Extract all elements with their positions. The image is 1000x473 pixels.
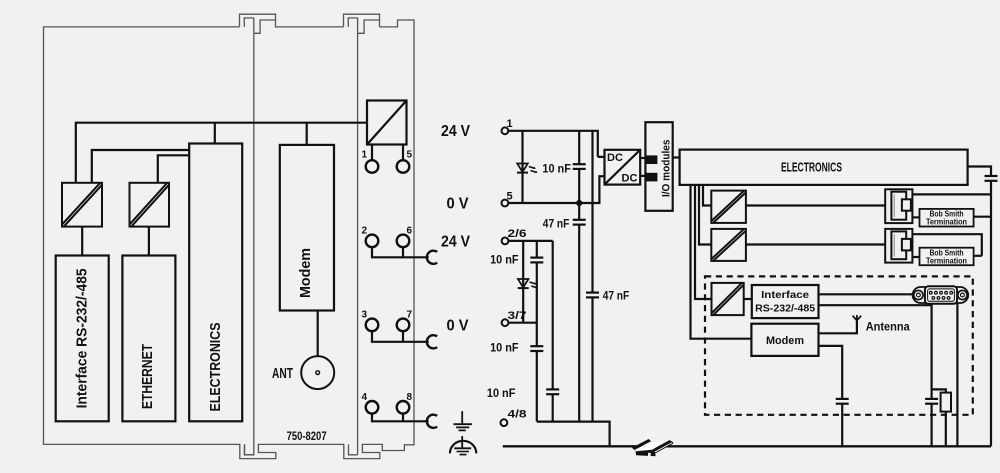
capacitor electronics earth [985, 176, 998, 181]
svg-text:24 V: 24 V [441, 234, 470, 251]
svg-text:10 nF: 10 nF [490, 253, 519, 267]
svg-text:ANT: ANT [272, 365, 293, 382]
node 2/6 circle [502, 238, 509, 245]
svg-text:0 V: 0 V [447, 196, 469, 213]
wire ethernet isolation to ethernet block [148, 227, 150, 256]
wire collector to earth bus [537, 422, 610, 447]
terminal circle 3 [366, 319, 379, 332]
wire node1 to dc upper stub [597, 155, 599, 157]
capacitor modem earth [836, 399, 849, 446]
svg-text:1: 1 [507, 118, 513, 130]
cage clamp row 2/6 [427, 251, 437, 264]
node 4/8 circle [501, 419, 508, 426]
terminal circle 8 [397, 401, 410, 414]
svg-text:47 nF: 47 nF [603, 289, 630, 303]
svg-text:I/O modules: I/O modules [661, 140, 673, 198]
functional earth symbol [454, 411, 472, 430]
rail earth symbol [450, 436, 476, 455]
wire dc to io pin upper [640, 157, 647, 159]
svg-text:24 V: 24 V [441, 123, 470, 140]
svg-text:3: 3 [361, 310, 367, 321]
wire power block to terminal 5 [402, 145, 404, 161]
svg-text:10 nF: 10 nF [542, 162, 571, 176]
foot 2 hook [349, 444, 358, 454]
capacitor 47nF row1 [573, 203, 586, 422]
dashed enclosure [705, 276, 973, 414]
io pin upper [646, 155, 658, 164]
io modules block [645, 122, 672, 211]
svg-text:1: 1 [361, 150, 367, 161]
junction node5 cap [576, 200, 582, 206]
LED 1 [517, 131, 538, 203]
terminal circle 5 [397, 160, 410, 173]
terminal circle 4 [366, 401, 379, 414]
earth line right [990, 181, 992, 447]
modem block right [751, 324, 818, 356]
wire electronics to isolation C [695, 185, 712, 299]
capacitor interface earth [925, 399, 938, 446]
svg-text:DC: DC [622, 173, 638, 185]
block modem left [280, 145, 334, 311]
node 1 circle [502, 127, 509, 134]
svg-text:ELECTRONICS: ELECTRONICS [781, 160, 842, 175]
wire power block to terminal 1 [371, 145, 373, 161]
svg-text:DC: DC [607, 152, 623, 164]
svg-text:10 nF: 10 nF [487, 386, 516, 400]
bob smith termination A [920, 209, 974, 227]
svg-text:Interface: Interface [761, 289, 809, 301]
node 5 circle [502, 200, 509, 207]
wire ethernet isolation to electronics [158, 155, 189, 183]
wire rs232 isolation to interface block [81, 227, 83, 256]
svg-text:Termination: Termination [926, 256, 967, 265]
wire terminals 2 6 to clamp [372, 247, 429, 257]
wire bobsmith B to shield line [974, 255, 982, 257]
wire node5 rail 0V [508, 176, 604, 203]
cage clamp row 4/8 [427, 415, 437, 428]
section divider 1 [245, 18, 254, 455]
wire node 2/6 [508, 240, 552, 242]
isolation block B [711, 229, 746, 261]
svg-text:Antenna: Antenna [866, 322, 911, 334]
wire rj45 B shield [912, 234, 981, 256]
wire dc to io pin lower [640, 175, 647, 177]
capacitor 10nF c [546, 241, 559, 422]
terminal circle 2 [366, 235, 379, 248]
svg-text:7: 7 [407, 310, 413, 321]
wire rj45 A to bobsmith A [912, 216, 919, 218]
svg-text:4: 4 [361, 392, 367, 403]
svg-text:5: 5 [407, 150, 413, 161]
section divider 2 [357, 18, 359, 455]
svg-text:Interface RS-232/-485: Interface RS-232/-485 [74, 268, 91, 408]
svg-text:3/7: 3/7 [508, 310, 527, 322]
capacitor 10nF a [530, 241, 543, 323]
earth bus [503, 445, 991, 447]
rj45 jack A [885, 189, 912, 223]
svg-text:4/8: 4/8 [508, 409, 527, 421]
isolation block C [712, 283, 744, 315]
wire terminals 4 8 to clamp [372, 414, 429, 422]
block interface rs-232/-485 [56, 256, 109, 422]
wire bus drop to electronics [214, 123, 216, 144]
wire modem to antenna circle [317, 311, 319, 356]
wire electronics to earth cap [968, 167, 991, 177]
svg-text:Modem: Modem [297, 248, 314, 298]
rj45 jack B [885, 229, 912, 263]
cage clamp row 3/7 [427, 335, 437, 348]
block electronics left [189, 144, 242, 422]
wire rs232 isolation to electronics [92, 150, 189, 183]
din rail icon [632, 439, 673, 456]
wire io to electronics [673, 156, 680, 158]
svg-text:ETHERNET: ETHERNET [139, 344, 156, 409]
antenna symbol [853, 315, 862, 321]
wire interface lower to cap [819, 305, 932, 399]
svg-text:Termination: Termination [926, 218, 967, 227]
svg-text:0 V: 0 V [447, 318, 469, 335]
foot 1 hook [245, 444, 254, 454]
bob smith termination B [920, 248, 974, 266]
wire 24V to 47nF branch [586, 131, 599, 422]
wire cap to resistor jog [932, 389, 946, 392]
svg-text:2/6: 2/6 [508, 228, 527, 240]
wire top power bus [76, 123, 367, 183]
wire isolation C to interface [744, 298, 752, 300]
svg-text:750-8207: 750-8207 [287, 431, 327, 443]
interface rs232 block right [752, 285, 819, 318]
wire electronics to isolation B [699, 185, 711, 245]
wire interface to db9 [819, 293, 913, 295]
LED 2 [518, 241, 539, 323]
wire bus drop to modem [306, 123, 308, 145]
resistor R [941, 393, 951, 412]
wire db9 to bus [956, 303, 958, 447]
wire isolation B to rj45 B [746, 243, 885, 245]
isolation block left ethernet [130, 183, 170, 227]
isolation block A [711, 191, 746, 223]
capacitor 10nF b [530, 323, 543, 422]
electronics bar [680, 150, 968, 185]
wire bobsmith A to earth line [974, 216, 991, 218]
wire modem to antenna [819, 321, 857, 334]
isolation block left rs232 [62, 183, 102, 227]
wire electronics to modem [691, 185, 752, 339]
svg-text:47 nF: 47 nF [543, 217, 570, 231]
svg-text:5: 5 [507, 191, 513, 203]
antenna connector circle ANT [301, 356, 334, 389]
claw 2 inner notch [348, 18, 379, 33]
wire electronics to isolation A [703, 185, 711, 206]
wire node 3/7 [508, 322, 537, 324]
svg-text:10 nF: 10 nF [490, 341, 519, 355]
wire rj45 B to bobsmith B [912, 256, 919, 258]
wire modem to cap [819, 346, 843, 399]
node 3/7 circle [502, 319, 509, 326]
terminal circle 6 [397, 235, 410, 248]
block ethernet [122, 256, 175, 422]
power supply block [367, 101, 407, 145]
wire node1 rail 24V [508, 131, 604, 157]
terminal circle 7 [397, 319, 410, 332]
wire terminals 3 7 to clamp [372, 331, 429, 342]
module outline 750-8207 [44, 14, 415, 458]
claw 1 inner notch [244, 18, 275, 33]
dc dc converter block [605, 150, 641, 185]
svg-text:ELECTRONICS: ELECTRONICS [207, 323, 224, 412]
svg-text:6: 6 [407, 226, 413, 237]
db9 connector [913, 286, 969, 304]
capacitor 10nF row1 [573, 131, 586, 203]
wire isolation A to rj45 A [746, 204, 885, 206]
io pin lower [646, 173, 658, 182]
wire resistor to bus [945, 412, 947, 447]
svg-text:RS-232/-485: RS-232/-485 [755, 302, 815, 314]
svg-text:8: 8 [407, 392, 413, 403]
terminal circle 1 [366, 160, 379, 173]
wire rj45 A to earth line [912, 193, 991, 195]
svg-text:2: 2 [361, 226, 367, 237]
svg-text:Modem: Modem [766, 335, 804, 347]
